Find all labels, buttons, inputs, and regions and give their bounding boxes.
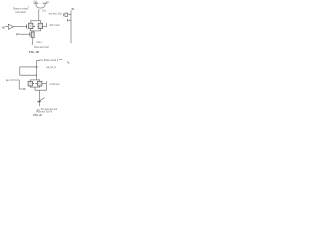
wire: bit line BL [70, 10, 72, 43]
wire: Q1 source descender with arrow [31, 38, 34, 45]
wire: rail stubs [31, 21, 40, 23]
svg-text:ps: ps [6, 79, 10, 82]
wire: top rail of latch [30, 20, 41, 22]
wire: tail below arrow [39, 99, 41, 106]
svg-text:wa_bit_ln: wa_bit_ln [46, 66, 56, 69]
svg-text:into latch: into latch [16, 10, 27, 14]
svg-text:p2: p2 [16, 33, 20, 36]
wire: left loop top [20, 67, 37, 75]
svg-text:wd_line_Out: wd_line_Out [49, 13, 63, 16]
wire: bottom loop [35, 86, 47, 90]
wire: input to M1 gate [13, 26, 26, 28]
wire: center descend [39, 90, 41, 99]
node VDD1 label [34, 2, 39, 4]
node BL label [72, 8, 75, 11]
svg-text:V2: V2 [46, 2, 50, 4]
node leader phi label [6, 79, 10, 82]
svg-text:FIG. 4C: FIG. 4C [33, 113, 42, 117]
svg-text:VDD or Gnd: VDD or Gnd [49, 24, 60, 27]
transistor M4 (left box) [28, 81, 32, 86]
capacitor C1 bar [35, 66, 38, 68]
node bottom caption row1 [41, 108, 58, 111]
svg-text:Data is read: Data is read [13, 7, 29, 11]
node gate label [16, 33, 20, 36]
node output tick [45, 23, 47, 28]
node switch contacts [33, 25, 35, 27]
svg-text:Vss o: Vss o [36, 41, 42, 44]
svg-text:1Tm: 1Tm [42, 11, 46, 13]
power rail bar right [43, 3, 48, 5]
wire: lower stub on bit line [67, 19, 71, 22]
svg-text:Vcc Plate word li: Vcc Plate word li [39, 59, 59, 62]
svg-text:BL: BL [72, 8, 75, 11]
node switch contacts 2 [32, 83, 33, 85]
wire: latch2 rail stubs [30, 80, 39, 81]
wire: latch2 bottom rail [30, 86, 40, 88]
node leader arrowhead [24, 88, 26, 90]
wire: cup joining the two supplies [36, 5, 45, 8]
wire: gate line of Q1 [19, 33, 30, 35]
node to wire label [50, 83, 61, 86]
node FIG 4B caption [29, 50, 40, 54]
svg-text:FIG. 4B: FIG. 4B [29, 50, 40, 54]
wire: main vertical into latch [38, 9, 40, 21]
node FIG 4C caption [33, 113, 42, 117]
node VDD or Gnd label [49, 24, 60, 27]
wire: cap top corner [37, 60, 40, 80]
node stray tick [67, 61, 69, 63]
node VDD2 label [46, 2, 50, 4]
wire: latch2 bottom stubs [30, 86, 39, 87]
ground tick [37, 109, 40, 111]
wire: bottom rail stubs [31, 29, 41, 31]
node plate label row [39, 59, 59, 62]
wire: output of M2 [43, 25, 47, 27]
transistor M3 (bit line access) [65, 13, 68, 16]
node word line label [49, 13, 63, 16]
transistor Q1 (pull-down) [29, 32, 31, 36]
svg-text:to bit line: to bit line [50, 83, 61, 86]
wire: latch2 top rail [30, 79, 40, 81]
node cap label [46, 66, 56, 69]
svg-text:1: 1 [28, 6, 30, 8]
svg-text:IN: IN [2, 26, 5, 29]
node Vtm label [42, 11, 46, 13]
transistor M5 (right box) [38, 81, 42, 86]
wire: bottom rail of latch [30, 30, 41, 32]
op-amp U1 input buffer [8, 24, 13, 29]
node IN label [2, 26, 5, 29]
transistor M2 (right box) [38, 23, 42, 28]
node Vout caption [34, 46, 49, 49]
svg-text:Vout and Vref: Vout and Vref [34, 46, 49, 49]
node bottom caption row2 [36, 111, 52, 114]
node Vss label [36, 41, 42, 44]
transistor M1 (left box) [26, 25, 28, 29]
current source I1 arrow [37, 98, 44, 102]
wire: leader to latch2 [10, 80, 24, 89]
node junction dot [36, 75, 37, 76]
wire: latch2 output [42, 83, 46, 85]
wire: drop from bottom rail [32, 31, 34, 32]
wire: buffer input [5, 26, 8, 28]
node A: top-left note text [13, 6, 30, 14]
node output tick 2 [46, 81, 48, 86]
power rail bar left [34, 3, 39, 5]
wire: dash after label [59, 59, 62, 61]
